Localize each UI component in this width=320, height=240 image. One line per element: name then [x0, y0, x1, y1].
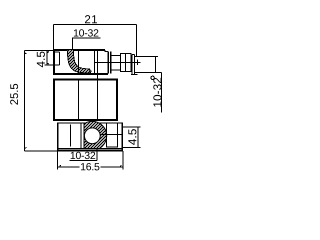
top view body left edge (thick) — [53, 49, 55, 75]
bottom view edge right of section — [106, 123, 108, 148]
top view body top edge left segment (thick) — [53, 49, 67, 51]
connector end body — [134, 57, 155, 73]
dimension 4.5 right: bottom tick — [123, 146, 140, 148]
connector centerline cross tick — [136, 59, 138, 65]
dimension 4.5 left: arrow nub bottom — [47, 63, 49, 64]
top view body bottom edge (thick) — [53, 73, 108, 75]
dimension 4.5 right: top tick — [123, 126, 140, 128]
dimension 25.5: arrow nub bottom — [24, 148, 26, 149]
dimension 16.5: left extension — [56, 151, 58, 170]
connector end top tick — [156, 56, 158, 58]
bottom view small ledge line — [107, 146, 118, 148]
connector nut — [120, 54, 131, 72]
top view inner edge pair right, continues into front view divider — [97, 50, 99, 120]
bottom view bottom edge upper line — [57, 148, 123, 150]
dimension 21 text — [85, 15, 97, 23]
connector barrel top — [111, 55, 120, 57]
top view hole right edge — [77, 50, 79, 74]
bottom view divider line right — [83, 123, 85, 149]
label 10-32 right text (rotated) — [153, 78, 161, 107]
top view body top edge right segment (thick) — [73, 49, 105, 51]
bottom view inner vertical right — [117, 123, 119, 148]
bottom view top edge — [57, 122, 85, 124]
front view internal edge — [77, 80, 79, 120]
small circle detail below connector end — [151, 76, 154, 79]
connector nut hex line — [125, 54, 127, 72]
connector washer left line — [131, 55, 133, 75]
dimension 16.5: text — [81, 163, 99, 170]
connector collar (solid) — [107, 52, 109, 74]
bottom view right edge — [121, 123, 123, 151]
dimension 16.5: arrow nub left — [60, 165, 61, 167]
dimension 4.5 left: extension bottom tick — [44, 64, 59, 66]
top view left lip vertical — [58, 52, 60, 65]
dimension 25.5: bottom extension — [24, 150, 57, 152]
dimension 25.5: text (rotated) — [10, 84, 18, 105]
label 10-32 right underline — [161, 73, 163, 113]
dimension 25.5: arrow nub top — [24, 53, 26, 54]
bottom view hole centerline — [100, 133, 122, 135]
connector step edge — [105, 50, 108, 52]
top view body top edge over section (thin) — [67, 49, 73, 51]
connector washer right line — [133, 55, 135, 75]
broken-out section hatched band (top view) — [63, 16, 94, 107]
dimension 4.5 right: dim line — [137, 127, 139, 147]
dimension 4.5 left: dim line — [46, 50, 48, 65]
connector centerline — [95, 61, 141, 63]
label 10-32 bottom text — [71, 152, 95, 159]
front view outline (thick) — [54, 79, 117, 119]
connector washer top tick — [132, 54, 134, 56]
bottom view divider line left — [80, 123, 82, 149]
bottom view bottom edge lower line (thick) — [57, 150, 123, 152]
dimension 25.5: dim line — [23, 50, 25, 151]
dimension 16.5: right extension — [122, 151, 124, 170]
dimension 16.5: dim line right segment — [101, 166, 123, 168]
label 10-32 top leader — [71, 38, 73, 50]
connector barrel bottom — [111, 69, 120, 71]
dimension 21 dim line — [53, 24, 136, 26]
label 10-32 bottom underline — [69, 159, 97, 161]
top view inner edge pair left — [94, 50, 96, 74]
bottom view left edge — [57, 123, 59, 151]
dimension 4.5 left: arrow nub top — [47, 52, 49, 53]
dimension 16.5: arrow nub right — [120, 165, 121, 167]
dimension 21 left extension line — [52, 25, 54, 50]
broken-out section hatched ring (bottom view) — [78, 88, 112, 186]
label 10-32 top text — [74, 29, 98, 36]
dimension 4.5 left: extension top (shared with 25.5 ext) — [24, 49, 57, 51]
dimension 16.5: dim line left segment — [57, 166, 79, 168]
connector washer bottom line — [131, 74, 138, 76]
label 10-32 right leader — [156, 72, 162, 74]
bottom view left section centerline — [70, 125, 72, 147]
dimension 21 right extension line — [135, 25, 137, 57]
dimension 4.5 left: text (rotated) — [37, 52, 45, 68]
dimension 4.5 right: text (rotated) — [128, 129, 136, 145]
label 10-32 top underline — [72, 37, 101, 39]
top view left lip top tick — [55, 51, 60, 53]
label 10-32 bottom leader — [96, 149, 98, 161]
